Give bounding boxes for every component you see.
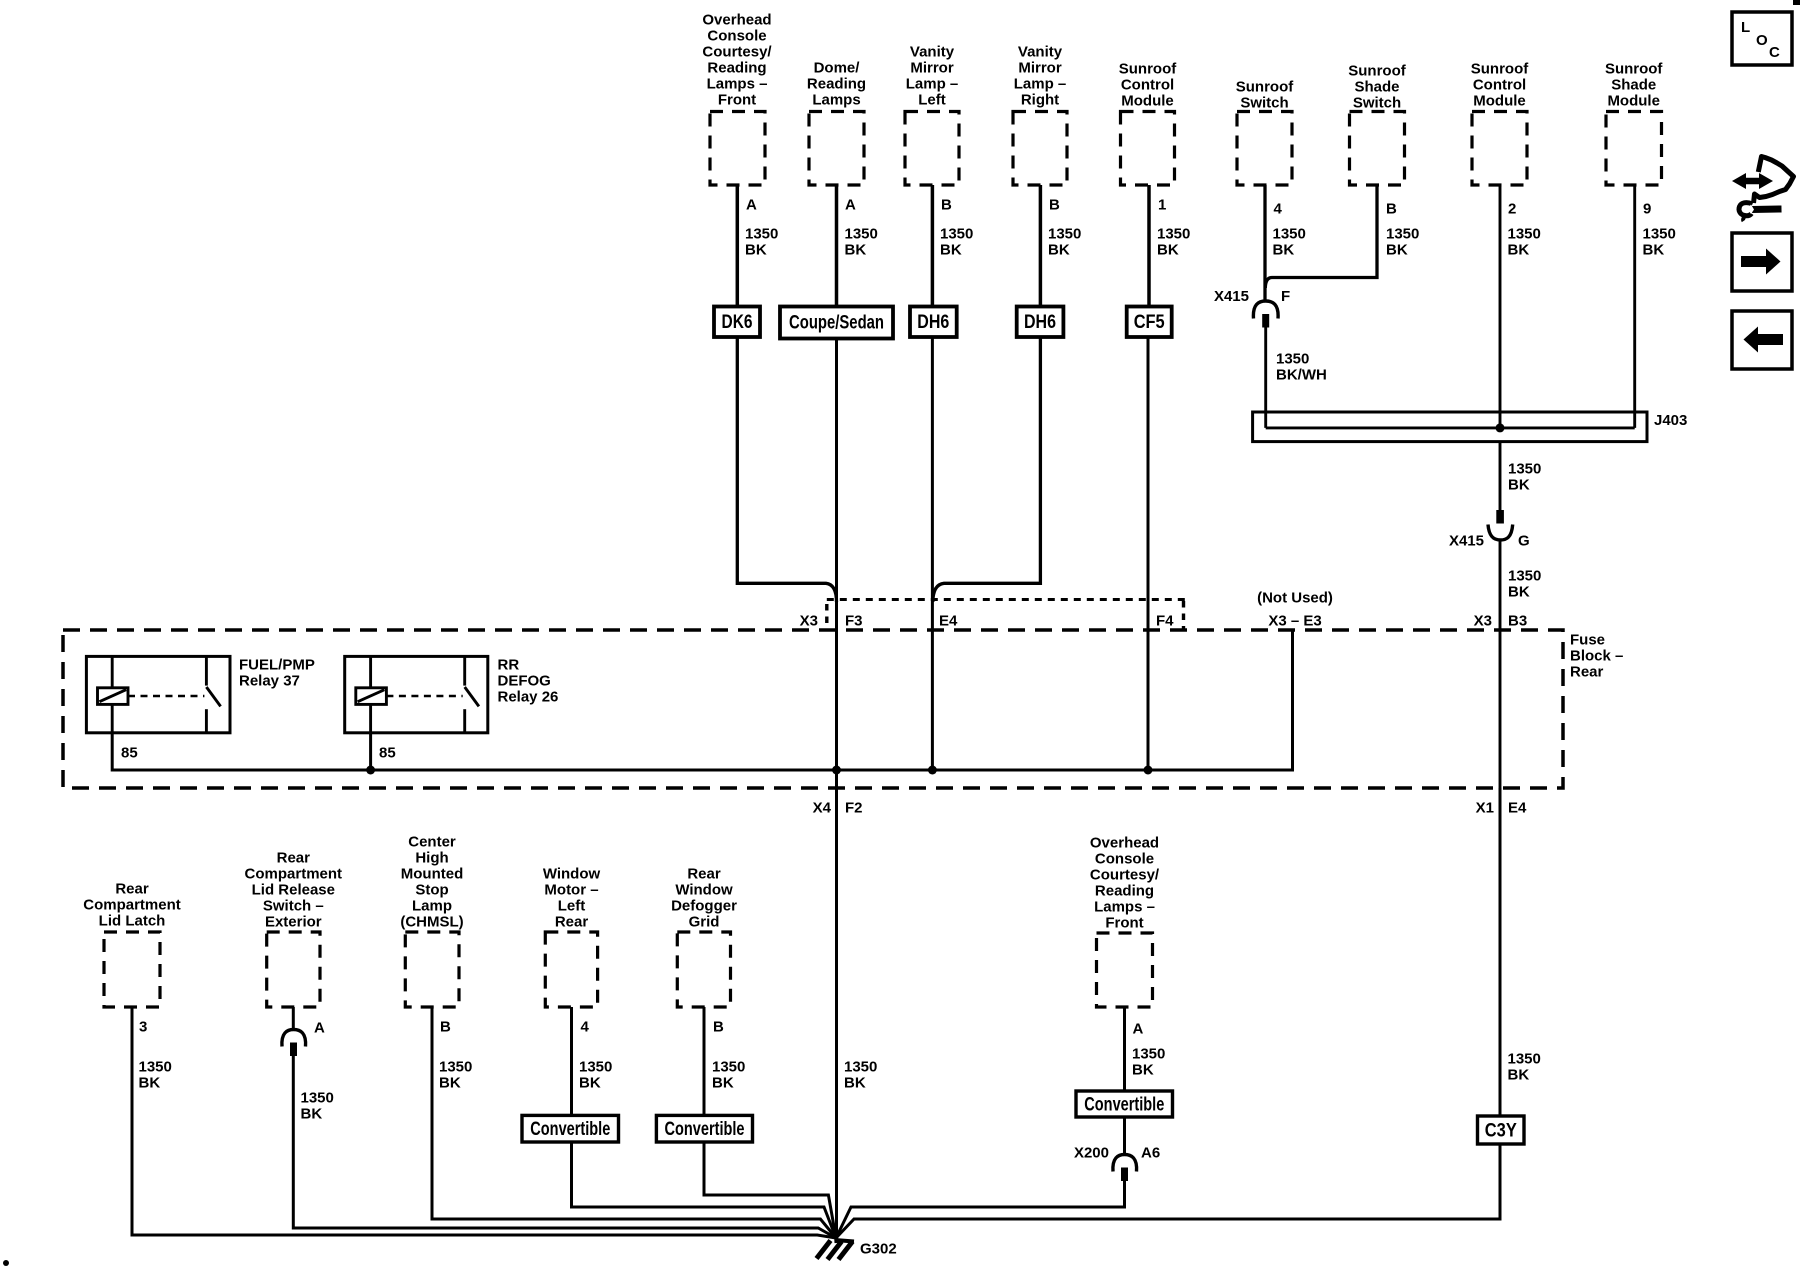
svg-text:Vanity: Vanity <box>910 44 955 61</box>
svg-text:Reading: Reading <box>807 76 866 93</box>
svg-text:Lamp –: Lamp – <box>906 76 959 93</box>
connector X200 A6 symbol <box>1113 1155 1137 1182</box>
wire: X415 F down to J403 <box>1264 328 1267 428</box>
svg-text:(Not Used): (Not Used) <box>1257 590 1333 607</box>
wire: ground bus inside fuse block <box>112 630 1292 770</box>
svg-text:BK: BK <box>579 1075 601 1092</box>
wire: DH6 right down and over to E4 entry <box>933 337 1041 602</box>
label FUEL/PMP Relay 37 <box>239 657 315 690</box>
svg-text:Exterior: Exterior <box>265 914 322 931</box>
node label (Not Used) X3 - E3 <box>1257 590 1333 630</box>
svg-text:1350: 1350 <box>940 226 973 243</box>
svg-text:1350: 1350 <box>1508 1051 1541 1068</box>
svg-text:85: 85 <box>379 745 396 762</box>
svg-text:Courtesy/: Courtesy/ <box>702 44 772 61</box>
label Fuse Block - Rear <box>1570 632 1623 681</box>
svg-text:Convertible: Convertible <box>665 1119 745 1140</box>
svg-text:Mirror: Mirror <box>1018 60 1062 77</box>
connector X415 terminal G label <box>1449 533 1530 550</box>
svg-text:Control: Control <box>1473 77 1526 94</box>
svg-text:1350: 1350 <box>139 1059 172 1076</box>
wire: fuse block E4 down through C3Y to G302 <box>1499 788 1502 1116</box>
component: Dome/Reading Lamps <box>807 60 866 186</box>
wire: overhead console front to DK6 <box>736 185 740 307</box>
wire label 1350 BK (below J403) <box>1508 461 1541 494</box>
option box DH6 (right) <box>1017 307 1064 338</box>
wire: lid release to G302 <box>293 1056 836 1238</box>
svg-text:O: O <box>1756 32 1768 49</box>
wire: DK6 down and over to fuse block F3 entry <box>737 337 836 602</box>
svg-text:Courtesy/: Courtesy/ <box>1090 867 1160 884</box>
svg-text:3: 3 <box>139 1019 147 1036</box>
svg-text:BK: BK <box>1273 242 1295 259</box>
svg-text:BK: BK <box>745 242 767 259</box>
svg-text:B: B <box>1386 201 1397 218</box>
svg-text:Module: Module <box>1607 93 1660 110</box>
option box Convertible (overhead console) <box>1076 1091 1173 1117</box>
svg-text:85: 85 <box>121 745 138 762</box>
component: Rear Compartment Lid Latch <box>83 881 181 1008</box>
svg-text:BK: BK <box>844 1075 866 1092</box>
wire label 1350 BK (sunroof switch) <box>1273 226 1306 259</box>
wire label 1350 BK (CHMSL) <box>439 1059 472 1092</box>
svg-text:Mounted: Mounted <box>401 866 463 883</box>
connector X200 terminal A6 label <box>1074 1145 1160 1162</box>
svg-text:F: F <box>1281 288 1290 305</box>
connector X415 F symbol (arc and pin) <box>1253 301 1278 328</box>
wire label 1350 BK (main vertical above G302) <box>844 1059 877 1092</box>
svg-text:G302: G302 <box>860 1241 897 1258</box>
component: Sunroof Control Module (right) <box>1471 61 1529 186</box>
svg-text:BK: BK <box>1386 242 1408 259</box>
connector X415 G symbol (pin and arc) <box>1488 510 1513 540</box>
svg-text:Lamps: Lamps <box>812 92 860 109</box>
svg-text:L: L <box>1741 19 1750 36</box>
svg-text:1350: 1350 <box>1273 226 1306 243</box>
wire: X415 G down to fuse block B3 entry and through block <box>1499 540 1502 788</box>
svg-text:1350: 1350 <box>439 1059 472 1076</box>
svg-text:1350: 1350 <box>1157 226 1190 243</box>
svg-text:Switch: Switch <box>1353 95 1401 112</box>
svg-text:Lid Latch: Lid Latch <box>99 913 166 930</box>
label RR DEFOG Relay 26 <box>498 657 559 706</box>
svg-text:Console: Console <box>1095 851 1154 868</box>
svg-text:CF5: CF5 <box>1134 312 1165 333</box>
component: Rear Window Defogger Grid <box>671 866 737 1008</box>
wire: J403 down to X415 G <box>1499 442 1502 510</box>
wire: lid release box to connector <box>292 1007 295 1030</box>
svg-text:1350: 1350 <box>845 226 878 243</box>
svg-text:BK: BK <box>1643 242 1665 259</box>
svg-text:G: G <box>1518 533 1530 550</box>
svg-text:Block –: Block – <box>1570 648 1623 665</box>
svg-text:Sunroof: Sunroof <box>1348 63 1406 80</box>
svg-text:1: 1 <box>1158 197 1166 214</box>
svg-text:Relay 26: Relay 26 <box>498 689 559 706</box>
svg-text:Center: Center <box>408 834 456 851</box>
svg-text:Sunroof: Sunroof <box>1236 79 1294 96</box>
svg-text:BK: BK <box>1508 1067 1530 1084</box>
svg-text:BK: BK <box>712 1075 734 1092</box>
wire: shade switch pin B down and left to sunroof switch wire <box>1265 185 1377 288</box>
svg-text:1350: 1350 <box>1386 226 1419 243</box>
junction dot relay 26 on bus <box>366 766 375 775</box>
svg-text:Defogger: Defogger <box>671 898 737 915</box>
svg-text:Lamp: Lamp <box>412 898 452 915</box>
wire: Convertible to X200 connector <box>1123 1117 1126 1155</box>
svg-text:1350: 1350 <box>1508 461 1541 478</box>
wire: CF5 down to fuse block F4 entry and relay bus <box>1147 337 1150 770</box>
wire: sunroof shade module pin 9 down to J403 <box>1633 185 1636 428</box>
option box DK6 <box>714 307 760 338</box>
svg-text:Rear: Rear <box>277 850 311 867</box>
svg-text:X3: X3 <box>800 613 818 630</box>
svg-text:A: A <box>1133 1021 1144 1038</box>
svg-text:1350: 1350 <box>745 226 778 243</box>
svg-text:DH6: DH6 <box>917 312 949 333</box>
svg-text:C: C <box>1769 44 1780 61</box>
nav icon previous page (left arrow) <box>1732 311 1792 369</box>
svg-text:1350: 1350 <box>1508 568 1541 585</box>
svg-text:Relay 37: Relay 37 <box>239 673 300 690</box>
svg-text:Sunroof: Sunroof <box>1119 61 1177 78</box>
wire: dome/reading to Coupe/Sedan <box>835 185 839 307</box>
svg-text:Lamps –: Lamps – <box>707 76 768 93</box>
wire label 1350 BK (col2) <box>845 226 878 259</box>
wire: relay 37 pin 85 to ground bus <box>111 733 114 772</box>
wire label 1350 BK (window motor) <box>579 1059 612 1092</box>
wire: CHMSL to G302 <box>432 1007 836 1238</box>
svg-text:X415: X415 <box>1449 533 1484 550</box>
component: Center High Mounted Stop Lamp (CHMSL) <box>400 834 463 1008</box>
wire label 1350 BK (col3) <box>940 226 973 259</box>
svg-text:X3 – E3: X3 – E3 <box>1268 613 1321 630</box>
wire: sunroof control module right pin 2 down to J403 <box>1499 185 1502 428</box>
wire label 1350 BK (shade switch) <box>1386 226 1419 259</box>
wire label 1350 BK (defogger) <box>712 1059 745 1092</box>
svg-text:BK/WH: BK/WH <box>1276 367 1327 384</box>
svg-text:Sunroof: Sunroof <box>1471 61 1529 78</box>
svg-text:4: 4 <box>581 1019 590 1036</box>
wire label 1350 BK (shade module) <box>1643 226 1676 259</box>
svg-text:High: High <box>415 850 448 867</box>
component: Sunroof Control Module (left) <box>1119 61 1177 186</box>
wire label 1350 BK (above fuse block) <box>1508 568 1541 601</box>
svg-text:Module: Module <box>1121 93 1174 110</box>
svg-text:DH6: DH6 <box>1024 312 1056 333</box>
svg-text:BK: BK <box>1508 477 1530 494</box>
svg-text:Front: Front <box>1105 915 1143 932</box>
svg-text:Control: Control <box>1121 77 1174 94</box>
junction dot F2 wire on bus <box>832 766 841 775</box>
wire: vanity right to DH6 <box>1039 185 1043 307</box>
svg-text:1350: 1350 <box>844 1059 877 1076</box>
svg-text:Right: Right <box>1021 92 1059 109</box>
svg-text:Stop: Stop <box>415 882 448 899</box>
nav icon next page (right arrow) <box>1732 233 1792 291</box>
component: Sunroof Shade Switch <box>1348 63 1406 186</box>
svg-text:A6: A6 <box>1141 1145 1160 1162</box>
wire label 1350 BK (lid release) <box>301 1090 334 1123</box>
wire label 1350 BK/WH <box>1276 351 1327 384</box>
wire: sunroof switch pin 4 down to X415 F <box>1263 185 1266 302</box>
hotlink icon (double arrow and wrench) <box>1732 157 1794 222</box>
svg-text:DEFOG: DEFOG <box>498 673 551 690</box>
wire: X200 to G302 <box>836 1181 1125 1238</box>
svg-text:FUEL/PMP: FUEL/PMP <box>239 657 315 674</box>
fuse block rear dashed border <box>63 630 1563 788</box>
wire: overhead console to Convertible box <box>1123 1007 1126 1091</box>
svg-text:BK: BK <box>139 1075 161 1092</box>
svg-text:Rear: Rear <box>687 866 721 883</box>
svg-text:BK: BK <box>1048 242 1070 259</box>
svg-text:Module: Module <box>1473 93 1526 110</box>
svg-text:B: B <box>713 1019 724 1036</box>
svg-text:Reading: Reading <box>1095 883 1154 900</box>
svg-text:B: B <box>941 197 952 214</box>
svg-text:Left: Left <box>558 898 586 915</box>
svg-text:Console: Console <box>707 28 766 45</box>
svg-text:Rear: Rear <box>1570 664 1604 681</box>
component: Window Motor - Left Rear <box>543 866 601 1008</box>
svg-text:Left: Left <box>918 92 946 109</box>
component: Overhead Console Courtesy/Reading Lamps - Front (bottom) <box>1090 835 1160 1008</box>
loc icon box <box>1732 12 1792 65</box>
svg-text:X4: X4 <box>813 800 832 817</box>
svg-text:Compartment: Compartment <box>245 866 343 883</box>
svg-text:1350: 1350 <box>1508 226 1541 243</box>
svg-text:9: 9 <box>1643 201 1651 218</box>
svg-text:E4: E4 <box>939 613 958 630</box>
wire: lid latch to G302 <box>132 1007 836 1238</box>
svg-text:Lid Release: Lid Release <box>252 882 335 899</box>
connector row X3 dotted line <box>827 600 1186 630</box>
svg-text:Rear: Rear <box>115 881 149 898</box>
option box Convertible (defogger) <box>656 1115 752 1142</box>
svg-text:B: B <box>1049 197 1060 214</box>
svg-text:Switch –: Switch – <box>263 898 324 915</box>
svg-text:1350: 1350 <box>1048 226 1081 243</box>
svg-text:Rear: Rear <box>555 914 589 931</box>
svg-text:1350: 1350 <box>712 1059 745 1076</box>
connector X415 terminal F label <box>1214 288 1290 305</box>
wire: window motor Convertible to G302 <box>572 1142 837 1238</box>
wire label 1350 BK (lid latch) <box>139 1059 172 1092</box>
svg-text:RR: RR <box>498 657 520 674</box>
svg-text:Mirror: Mirror <box>910 60 954 77</box>
svg-text:Sunroof: Sunroof <box>1605 61 1663 78</box>
svg-text:B: B <box>440 1019 451 1036</box>
svg-text:Switch: Switch <box>1240 95 1288 112</box>
component: Overhead Console Courtesy/Reading Lamps - Front (top) <box>702 12 772 186</box>
svg-text:Shade: Shade <box>1611 77 1656 94</box>
splice pack J403 <box>1253 412 1688 442</box>
svg-text:DK6: DK6 <box>722 312 753 333</box>
svg-text:F2: F2 <box>845 800 863 817</box>
stray mark bottom left <box>3 1260 9 1266</box>
svg-text:X415: X415 <box>1214 288 1249 305</box>
svg-text:Front: Front <box>718 92 756 109</box>
relay RR DEFOG Relay 26 <box>345 656 488 732</box>
svg-text:BK: BK <box>1508 584 1530 601</box>
svg-text:BK: BK <box>1132 1062 1154 1079</box>
component: Sunroof Switch <box>1236 79 1294 186</box>
svg-text:F3: F3 <box>845 613 863 630</box>
wire: defogger Convertible to G302 <box>704 1142 836 1238</box>
connector symbol (lid release in-line) <box>282 1030 306 1057</box>
svg-text:BK: BK <box>940 242 962 259</box>
ground G302 symbol <box>817 1235 855 1260</box>
svg-text:J403: J403 <box>1654 412 1687 429</box>
wire label 1350 BK (col1) <box>745 226 778 259</box>
svg-text:Motor –: Motor – <box>544 882 598 899</box>
svg-text:Compartment: Compartment <box>83 897 181 914</box>
component: Rear Compartment Lid Release Switch - Exterior <box>245 850 343 1008</box>
svg-text:BK: BK <box>845 242 867 259</box>
wire: DH6 left down to fuse block E4 entry and relay bus <box>931 337 934 770</box>
svg-text:(CHMSL): (CHMSL) <box>400 914 463 931</box>
junction dot E4 wire on bus <box>928 766 937 775</box>
component: Vanity Mirror Lamp - Right <box>1013 44 1067 186</box>
svg-text:A: A <box>845 197 856 214</box>
svg-text:X200: X200 <box>1074 1145 1109 1162</box>
svg-text:Dome/: Dome/ <box>814 60 861 77</box>
svg-text:Convertible: Convertible <box>530 1119 610 1140</box>
wire label 1350 BK (control module right) <box>1508 226 1541 259</box>
option box Convertible (window motor) <box>522 1115 619 1142</box>
svg-text:Vanity: Vanity <box>1018 44 1063 61</box>
svg-text:B3: B3 <box>1508 613 1527 630</box>
svg-text:Shade: Shade <box>1354 79 1399 96</box>
relay FUEL/PMP Relay 37 <box>86 656 230 732</box>
svg-text:A: A <box>314 1020 325 1037</box>
junction dot J403 <box>1496 423 1505 432</box>
svg-text:2: 2 <box>1508 201 1516 218</box>
svg-text:BK: BK <box>1508 242 1530 259</box>
svg-text:A: A <box>746 197 757 214</box>
svg-text:Overhead: Overhead <box>702 12 771 29</box>
option box DH6 (left) <box>910 307 957 338</box>
svg-text:Convertible: Convertible <box>1084 1094 1164 1115</box>
svg-text:1350: 1350 <box>1132 1046 1165 1063</box>
stray mark top right <box>1793 0 1800 5</box>
wire: defogger to Convertible box <box>703 1007 706 1115</box>
svg-text:F4: F4 <box>1156 613 1174 630</box>
svg-text:Lamp –: Lamp – <box>1014 76 1067 93</box>
svg-text:Grid: Grid <box>689 914 720 931</box>
component: Sunroof Shade Module <box>1605 61 1663 186</box>
svg-text:BK: BK <box>1157 242 1179 259</box>
wire: sunroof control module to CF5 <box>1147 185 1151 307</box>
svg-text:Overhead: Overhead <box>1090 835 1159 852</box>
svg-text:Lamps –: Lamps – <box>1094 899 1155 916</box>
wire: vanity left to DH6 <box>931 185 935 307</box>
svg-text:Reading: Reading <box>707 60 766 77</box>
wire label 1350 BK (col5) <box>1157 226 1190 259</box>
wire label 1350 BK (overhead console bottom) <box>1132 1046 1165 1079</box>
wire label 1350 BK (col4) <box>1048 226 1081 259</box>
svg-text:Fuse: Fuse <box>1570 632 1605 649</box>
junction dot F4 wire on bus <box>1144 766 1153 775</box>
wire label 1350 BK (C3Y wire) <box>1508 1051 1541 1084</box>
svg-text:X3: X3 <box>1474 613 1492 630</box>
svg-text:1350: 1350 <box>1276 351 1309 368</box>
wire: relay 26 pin 85 to ground bus <box>369 733 372 770</box>
svg-text:1350: 1350 <box>579 1059 612 1076</box>
svg-text:Coupe/Sedan: Coupe/Sedan <box>789 313 884 334</box>
wire: window motor to Convertible box <box>570 1007 573 1115</box>
option box C3Y <box>1478 1116 1525 1144</box>
option box Coupe/Sedan <box>780 307 893 339</box>
svg-text:E4: E4 <box>1508 800 1527 817</box>
svg-text:1350: 1350 <box>301 1090 334 1107</box>
svg-text:X1: X1 <box>1476 800 1494 817</box>
svg-text:C3Y: C3Y <box>1485 1121 1517 1142</box>
svg-text:BK: BK <box>301 1106 323 1123</box>
svg-text:4: 4 <box>1274 201 1283 218</box>
svg-text:BK: BK <box>439 1075 461 1092</box>
component: Vanity Mirror Lamp - Left <box>905 44 959 186</box>
svg-text:Window: Window <box>543 866 601 883</box>
option box CF5 <box>1127 307 1172 338</box>
wire: Coupe/Sedan down through fuse block to G302 (main vertical) <box>835 339 838 1239</box>
svg-text:Window: Window <box>675 882 733 899</box>
svg-text:1350: 1350 <box>1643 226 1676 243</box>
